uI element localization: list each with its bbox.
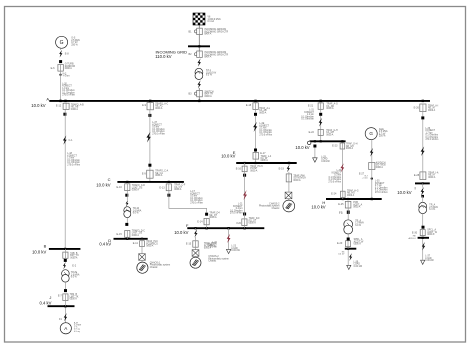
svg-text:E-9: E-9: [142, 173, 147, 176]
breaker E-30: [420, 230, 425, 236]
svg-text:E-10: E-10: [117, 186, 123, 189]
wire stub breaker E-21 to switch: [320, 109, 322, 113]
switch below breaker E-26: [421, 116, 424, 119]
junction bus I at I-L feeder: [422, 182, 424, 184]
switch below breaker E-12: [63, 113, 66, 116]
wire breaker B3 to bus A: [198, 97, 200, 101]
svg-text:E-19: E-19: [279, 167, 285, 170]
svg-text:E-15: E-15: [186, 243, 192, 246]
breaker E-12 (A to B): [63, 103, 69, 109]
junction bus L at load feeder: [422, 237, 424, 239]
wire stub breaker E-12 to switch: [64, 110, 66, 116]
svg-text:10.0 kV: 10.0 kV: [174, 230, 188, 235]
wire breaker E-17 to bus E: [255, 159, 257, 163]
wire stub breaker E-18 to switch: [255, 110, 257, 113]
junction on bus A at generator feeder: [59, 100, 61, 102]
breaker E-9 (A to C): [147, 103, 153, 110]
junction grid bus at incoming: [198, 45, 200, 47]
machine switch box G2: [369, 163, 375, 170]
wire A to E feeder: [255, 116, 257, 152]
switch below breaker E-21: [319, 113, 322, 116]
wire bus J to motor: [65, 306, 67, 323]
breaker E-18 (A to E): [253, 103, 258, 110]
svg-text:I: I: [414, 185, 415, 190]
wire stub node to transformer TR-I: [422, 196, 424, 202]
generator impedance zigzag: [59, 50, 62, 58]
breaker E-7: [63, 294, 68, 301]
breaker E-10: [125, 184, 130, 191]
junction on bus F at load: [227, 227, 229, 229]
svg-text:G: G: [369, 131, 373, 136]
svg-text:G: G: [60, 40, 64, 46]
wire stub bus F to zigzag PV: [195, 228, 197, 230]
switch below bus B breaker: [64, 259, 67, 262]
wire external grid to breaker B1: [198, 25, 200, 29]
wire inverter to PV circle F: [195, 256, 197, 257]
zigzag E-19: [287, 164, 290, 172]
inverter (PV F): [192, 250, 199, 257]
wire stub breaker E-7 to bus J: [64, 301, 66, 307]
zigzag E-2: [63, 262, 66, 269]
svg-text:E-26: E-26: [414, 107, 420, 110]
junction on bus E at PV feeder: [288, 162, 290, 164]
wire bus K to load: [347, 249, 349, 266]
junction on bus A at feeder to B: [64, 100, 66, 102]
wire stub breaker E-14 to bus F: [206, 225, 208, 228]
junction on bus H at generator: [371, 198, 373, 200]
bus L: [418, 237, 429, 239]
transformer TR-8 (B to J): [62, 270, 70, 282]
junction bus B at A-B feeder: [64, 248, 66, 250]
transformer TR-10 (C to D): [124, 207, 131, 218]
bus K: [345, 248, 357, 250]
svg-text:E-12: E-12: [56, 105, 62, 108]
fault zigzag on line A-C: [146, 132, 150, 143]
junction on bus F at E-14: [205, 227, 207, 229]
breaker E-13: [166, 184, 171, 191]
wire stub breaker E-10 to switch: [126, 191, 128, 201]
wire bus L to load: [422, 238, 424, 260]
svg-text:10.0 kV: 10.0 kV: [32, 250, 46, 255]
wire transformer TR-H to switch: [347, 234, 349, 238]
wire inverter to PV circle: [141, 260, 143, 262]
breaker above bus D: [125, 231, 130, 238]
wire transformer TR-10 to switch: [126, 218, 128, 224]
junction on bus A at feeder to E: [254, 100, 256, 102]
bus F: [187, 227, 264, 229]
junction bus G at load: [314, 140, 316, 142]
svg-text:E-21: E-21: [308, 105, 314, 108]
wire stub switch to breaker K20: [244, 213, 246, 219]
wire stub bus D to breaker E-11: [141, 239, 143, 241]
breaker E-24: [341, 191, 346, 197]
wire to inverter (PV E): [288, 182, 290, 192]
load arrow at bus F: [226, 249, 230, 253]
junction bus D at PV feeder: [141, 238, 143, 240]
wire stub breaker E-16 to switch: [244, 172, 246, 177]
photovoltaic system at D: [137, 262, 148, 273]
transformer at I (TR-I): [419, 202, 427, 213]
wire stub bus E to breaker E-16: [244, 163, 246, 166]
breaker E-15 (F PV): [193, 241, 198, 247]
svg-text:E-23: E-23: [332, 145, 338, 148]
junction bus F at PV feeder: [194, 227, 196, 229]
breaker E-22: [318, 129, 323, 135]
load arrow at bus G: [313, 158, 318, 162]
junction below zigzag at I: [421, 195, 424, 198]
svg-text:E-8: E-8: [65, 52, 70, 55]
switch above breaker E-17: [254, 149, 257, 152]
svg-text:E-25: E-25: [338, 203, 344, 206]
svg-text:E-29: E-29: [337, 242, 343, 245]
wire A to C feeder: [149, 117, 151, 182]
svg-text:E-22: E-22: [309, 131, 315, 134]
switch above breaker E-30: [422, 226, 425, 229]
inverter (PV D): [139, 254, 146, 261]
bus J: [48, 305, 75, 307]
load arrow at bus L: [421, 260, 425, 264]
wire A to I feeder: [422, 120, 424, 172]
switch above breaker E-14: [205, 213, 208, 216]
asynchronous machine A: [60, 323, 71, 334]
switch below generator: [59, 60, 62, 63]
bus B: [49, 248, 81, 250]
svg-text:E-16: E-16: [236, 167, 242, 170]
svg-text:E-6: E-6: [51, 67, 56, 70]
fault zigzag on line E-F (red): [243, 190, 247, 200]
wire stub breaker E-29 to bus K: [347, 247, 349, 249]
svg-text:E-15: E-15: [117, 233, 123, 236]
svg-text:0.4 kV: 0.4 kV: [99, 242, 111, 247]
switch above breaker E-29: [347, 238, 350, 241]
svg-text:10.0 kV: 10.0 kV: [295, 145, 309, 150]
svg-text:K20: K20: [237, 222, 242, 225]
wire stub breaker E-26 to switch: [422, 112, 424, 117]
junction bus K at load feeder: [347, 248, 349, 250]
breaker below bus B: [63, 252, 68, 258]
svg-text:E-7: E-7: [58, 295, 63, 298]
zigzag above transformer TR-10: [126, 200, 129, 207]
wire stub breaker E-9 to switch: [149, 110, 151, 117]
svg-text:10.0 kV: 10.0 kV: [311, 205, 325, 210]
wire generator chain to bus A: [60, 76, 62, 101]
svg-text:10.0 kV: 10.0 kV: [397, 190, 411, 195]
breaker E-29: [346, 241, 351, 247]
node N-2 dot: [59, 74, 61, 76]
impedance zigzag above transformer ST-1: [197, 58, 200, 66]
cable C-1 zigzag: [63, 136, 67, 145]
svg-text:E-24: E-24: [331, 193, 337, 196]
bus D: [114, 238, 148, 240]
svg-text:E-17: E-17: [260, 152, 266, 155]
node N-7 dot: [371, 177, 373, 179]
photovoltaic system at E: [283, 200, 295, 212]
svg-text:C-1: C-1: [69, 139, 74, 142]
wire stub bus I to zigzag: [422, 183, 424, 187]
wire stub bus B to breaker: [64, 249, 66, 252]
svg-text:0.4 kV: 0.4 kV: [40, 300, 52, 305]
switch box below E-19: [286, 174, 291, 182]
junction bus C at C-D feeder: [126, 181, 128, 183]
breaker E-6: [58, 65, 63, 72]
wire stub zigzag to breaker E-15: [195, 237, 197, 241]
wire breaker B1 to grid bus: [198, 35, 200, 47]
bus INCOMING GRID: [188, 45, 210, 47]
wire stub breaker E-6 to node N-2: [60, 71, 62, 75]
junction bus G at A-G feeder: [320, 140, 322, 142]
zigzag below generator G2: [370, 148, 374, 157]
svg-text:C: C: [108, 177, 111, 182]
fuse F5: [347, 211, 350, 214]
bus I: [415, 182, 430, 184]
fault zigzag on line A-E: [253, 122, 257, 132]
svg-text:F5: F5: [339, 211, 343, 215]
svg-text:E-30: E-30: [412, 231, 418, 234]
svg-text:E-9: E-9: [142, 104, 147, 107]
bus G node circle at left end: [308, 141, 311, 144]
junction on bus A at incoming feeder: [198, 100, 200, 102]
wire breaker E-15 to inverter: [195, 247, 197, 250]
fault zigzag on F load (red): [227, 234, 231, 243]
zigzag on line A-I: [421, 146, 425, 156]
svg-text:J: J: [49, 295, 51, 300]
generator G-S: [56, 36, 68, 48]
breaker E-17: [253, 153, 259, 160]
breaker E-16: [242, 166, 247, 172]
switch below breaker E-13: [167, 194, 170, 197]
svg-text:E-11: E-11: [133, 242, 139, 245]
zigzag on line A-G: [319, 118, 323, 127]
breaker K20: [242, 219, 247, 226]
wire to breaker B3: [198, 88, 200, 90]
wire breaker E-11 to inverter: [141, 247, 143, 254]
wire generator to zigzag: [60, 48, 62, 50]
wire stub breaker K20 to bus F: [244, 226, 246, 229]
wire generator G2 to bus H: [371, 170, 373, 200]
bus H: [326, 198, 382, 200]
wire bus G load: [314, 148, 316, 158]
junction on bus A at feeder to C: [149, 100, 151, 102]
junction bus E at A-E feeder: [254, 162, 256, 164]
breaker E-14: [204, 218, 209, 224]
breaker E-26 (A to I): [420, 104, 426, 112]
svg-text:E-28: E-28: [414, 174, 420, 177]
wire A to G feeder: [320, 116, 322, 141]
switch above breaker E-7: [64, 289, 67, 292]
transformer ST-1 (110/10 kV): [195, 68, 203, 79]
wire A to B feeder: [64, 116, 66, 249]
junction bus G at G-H feeder: [341, 140, 343, 142]
breaker above bus C: [147, 170, 153, 178]
breaker E-11: [140, 241, 145, 247]
breaker B3: [194, 90, 202, 96]
svg-text:110.0 kV: 110.0 kV: [155, 54, 171, 59]
wire generator G2 down: [371, 140, 373, 163]
breaker B2: [194, 51, 202, 57]
junction bus E at E-F feeder: [244, 162, 246, 164]
external grid V8 (checkered symbol): [193, 13, 205, 25]
junction bus H at H-K feeder: [347, 198, 349, 200]
photovoltaic system at F: [190, 257, 201, 268]
wire G to H feeder: [341, 149, 343, 191]
junction bus C at C-F feeder: [168, 181, 170, 183]
wire inverter to PV circle E: [288, 199, 290, 201]
switch below breaker E-18: [254, 113, 257, 116]
generator G2: [365, 128, 377, 140]
zigzag F1: [64, 313, 67, 321]
switch below bus G (load): [313, 145, 316, 148]
wire E to F feeder: [244, 177, 246, 213]
junction on bus A at feeder to I: [422, 100, 424, 102]
svg-text:10.0 kV: 10.0 kV: [96, 183, 110, 188]
fault zigzag on line G-H (red): [340, 163, 344, 172]
transformer at H (TR-H): [344, 220, 353, 234]
switch below breaker E-9: [148, 114, 151, 117]
zigzag on K load: [349, 253, 352, 261]
svg-text:E-18: E-18: [246, 104, 252, 107]
switch below breaker E-16: [243, 174, 246, 177]
wire C to F with elbow: [169, 197, 207, 213]
junction on bus F at K20: [243, 227, 245, 229]
breaker B1 incoming: [194, 28, 202, 34]
load arrow at bus K: [347, 265, 351, 269]
junction bus J at B-J feeder: [64, 305, 66, 307]
wire stub breaker E-13 to switch: [168, 191, 170, 197]
switch above bus C: [148, 164, 151, 167]
wire stub zigzag E-19 to box: [288, 172, 290, 174]
svg-text:10.0 kV: 10.0 kV: [31, 103, 45, 108]
inverter (PV E): [285, 192, 292, 199]
svg-text:E-14: E-14: [197, 220, 203, 223]
wire transformer TR-I to switch: [422, 214, 424, 226]
junction bus H at G-H feeder: [342, 198, 344, 200]
wire stub breaker E-25 to transformer: [347, 208, 349, 220]
zigzag on L load: [422, 242, 425, 250]
svg-text:10.0 kV: 10.0 kV: [221, 154, 235, 159]
zigzag below bus F: [194, 229, 197, 237]
zigzag below bus I: [421, 187, 425, 196]
bus E: [236, 162, 297, 164]
switch below breaker E-10: [125, 194, 128, 197]
breaker E-25 (H): [345, 201, 351, 208]
wire bus F to load: [228, 228, 230, 249]
svg-text:B: B: [44, 244, 47, 249]
wire stub breaker above bus D: [126, 237, 128, 239]
bus C: [117, 181, 183, 183]
impedance zigzag below transformer ST-1: [197, 80, 200, 88]
svg-text:A: A: [46, 96, 49, 101]
breaker E-21 (A to G): [318, 103, 323, 109]
wire stub breaker E-24 to bus H: [342, 198, 344, 199]
junction bus J at motor feeder: [64, 305, 66, 307]
bus A: [49, 100, 430, 102]
svg-text:E-13: E-13: [159, 186, 165, 189]
breaker E-28: [420, 172, 426, 180]
switch above breaker K20: [243, 213, 246, 216]
junction on bus A at feeder to G: [320, 100, 322, 102]
switch above bus D: [125, 223, 128, 226]
junction bus D at incoming trafo: [126, 238, 128, 240]
breaker E-23: [340, 143, 345, 149]
wire grid bus to breaker B2: [198, 46, 200, 51]
bus G: [310, 140, 346, 142]
wire transformer TR-8 to switch: [64, 282, 66, 289]
svg-text:E-2: E-2: [72, 264, 77, 267]
